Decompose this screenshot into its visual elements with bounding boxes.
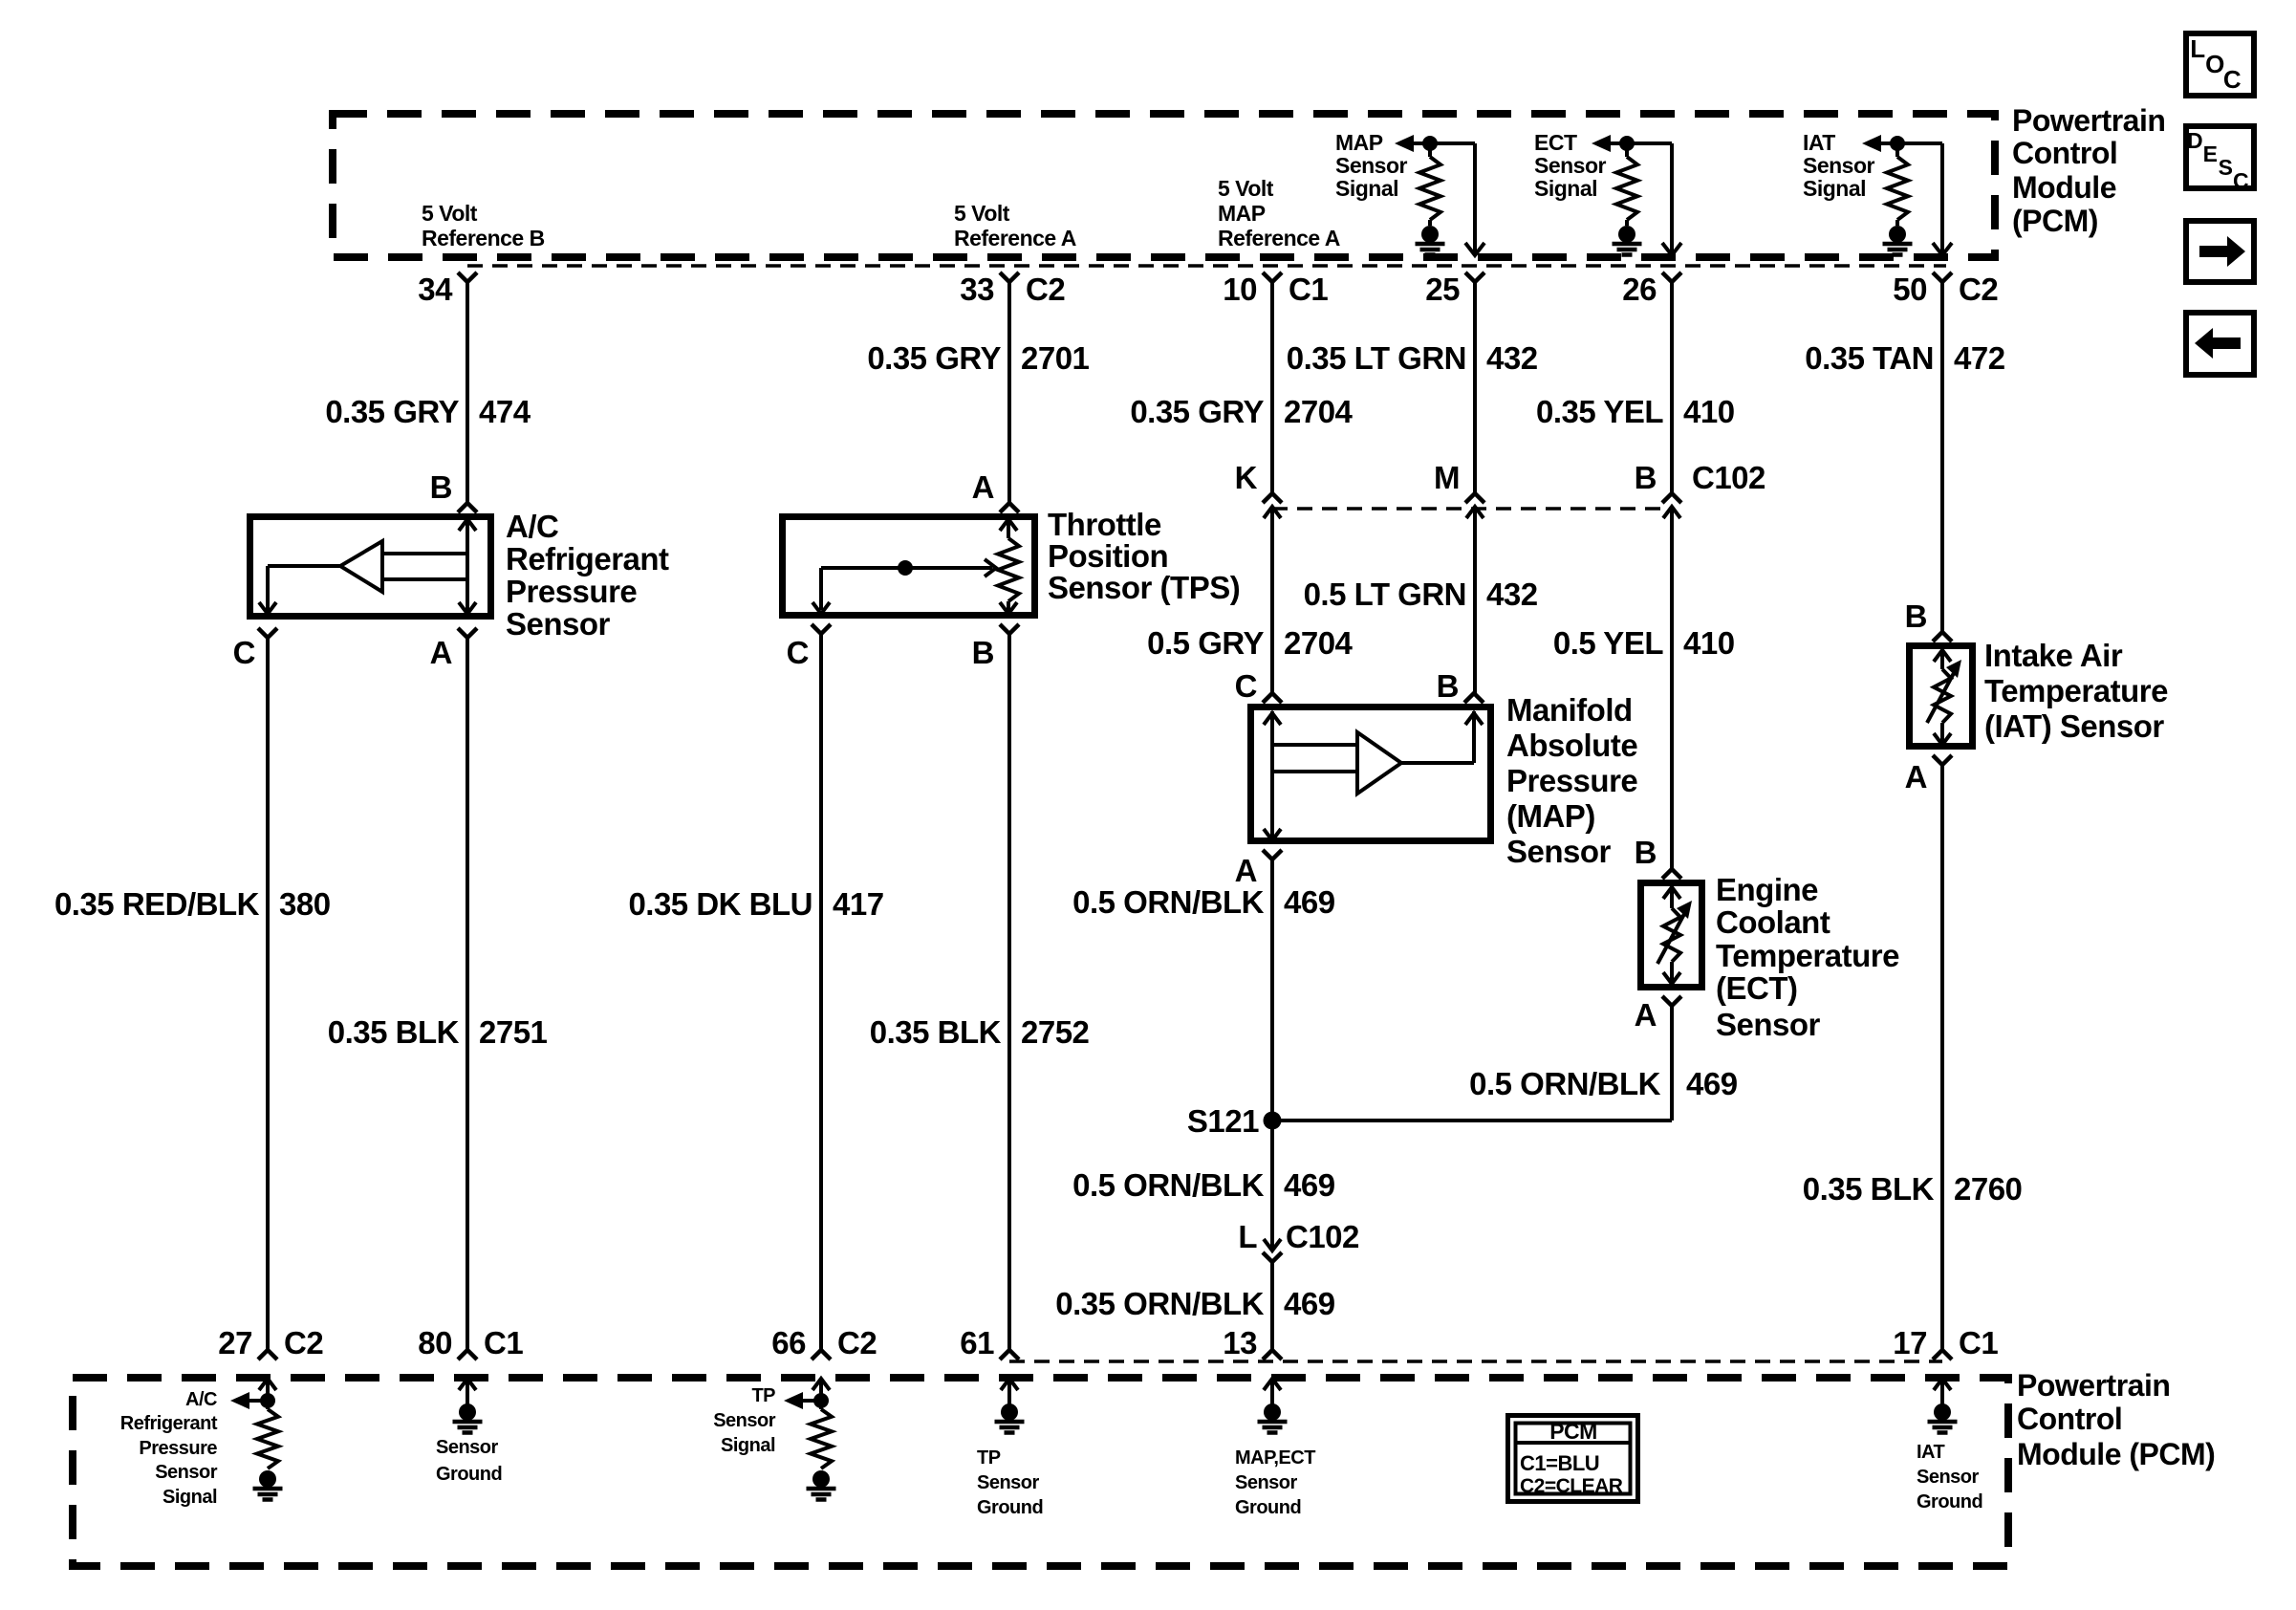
svg-text:33: 33 <box>960 272 994 307</box>
svg-text:Control: Control <box>2017 1402 2122 1436</box>
label A/C Refrigerant Pressure Sensor <box>506 509 669 642</box>
icon box DESC <box>2186 126 2254 193</box>
svg-text:Reference A: Reference A <box>1218 226 1340 250</box>
op-amp A/C sensor (amplifier triangle) <box>340 541 382 592</box>
wire 2704 (0.35 GRY) pin 10 to C102 K <box>1270 283 1274 493</box>
wire 2701 (0.35 GRY) pin 33 to TPS A <box>1007 283 1011 503</box>
svg-text:TP: TP <box>977 1447 1001 1469</box>
svg-text:0.35 BLK: 0.35 BLK <box>328 1014 460 1050</box>
svg-text:S: S <box>2219 155 2233 180</box>
svg-text:410: 410 <box>1683 394 1735 429</box>
label 0.35 BLK 2751 <box>328 1014 548 1050</box>
svg-text:M: M <box>1434 460 1460 495</box>
manifold absolute pressure sensor box <box>1251 707 1491 841</box>
wire 2704 (0.5 GRY) C102 K to MAP C <box>1270 507 1274 693</box>
svg-text:C: C <box>2223 65 2242 94</box>
label 0.35 GRY 2704 <box>1130 394 1353 429</box>
intake air temperature sensor box <box>1910 646 1973 747</box>
wire 474 (0.35 GRY) pin 34 to A/C sensor B <box>466 283 469 503</box>
pin M C102 <box>1434 460 1484 518</box>
pin 66 C2 (PCM bottom) <box>771 1325 877 1360</box>
label IAT Sensor Ground <box>1917 1442 1982 1512</box>
svg-text:0.5 ORN/BLK: 0.5 ORN/BLK <box>1469 1066 1661 1101</box>
svg-text:469: 469 <box>1686 1066 1738 1101</box>
TP sensor signal input (inside PCM) <box>784 1379 830 1409</box>
svg-text:Pressure: Pressure <box>139 1438 217 1459</box>
svg-text:5 Volt: 5 Volt <box>1218 176 1274 201</box>
ground IAT sensor ground pin 17 (inside PCM) <box>1928 1379 1958 1433</box>
label 0.35 DK BLU 417 <box>628 886 883 922</box>
svg-text:ECT: ECT <box>1534 130 1577 155</box>
svg-text:Engine: Engine <box>1716 872 1818 907</box>
svg-text:10: 10 <box>1223 272 1257 307</box>
icon box arrow right <box>2186 221 2254 282</box>
svg-text:A: A <box>1635 997 1657 1033</box>
thermistor ECT sensor <box>1657 885 1692 984</box>
wire 2760 (0.35 BLK) IAT A to pin 17 <box>1940 765 1944 1350</box>
svg-text:0.5 ORN/BLK: 0.5 ORN/BLK <box>1072 884 1265 920</box>
label Manifold Absolute Pressure (MAP) Sensor <box>1506 692 1637 869</box>
svg-text:(MAP): (MAP) <box>1506 798 1595 834</box>
svg-text:5 Volt: 5 Volt <box>422 201 478 226</box>
svg-text:13: 13 <box>1223 1325 1257 1360</box>
pin 34 (PCM top) <box>418 272 477 307</box>
wire MAP internal signal out <box>1401 711 1483 763</box>
icon box arrow left <box>2186 313 2254 375</box>
svg-text:IAT: IAT <box>1917 1442 1945 1463</box>
pull-up resistor MAP sensor signal (inside PCM) <box>1419 136 1440 226</box>
svg-text:0.5 LT GRN: 0.5 LT GRN <box>1304 577 1466 612</box>
svg-text:432: 432 <box>1486 340 1538 376</box>
PCM bottom dashed box (Powertrain Control Module) <box>73 1378 2008 1566</box>
wire 469 (0.35 ORN/BLK) C102 L to pin 13 <box>1270 1262 1274 1350</box>
svg-text:IAT: IAT <box>1803 130 1835 155</box>
svg-text:Reference A: Reference A <box>954 226 1076 250</box>
resistor A/C signal (inside PCM) <box>257 1409 278 1469</box>
svg-text:0.35 ORN/BLK: 0.35 ORN/BLK <box>1055 1286 1264 1321</box>
wire 432 (0.5 LT GRN) C102 M to MAP B <box>1473 507 1477 693</box>
pin 26 (PCM top) <box>1622 272 1681 307</box>
svg-text:B: B <box>430 469 452 505</box>
pin B IAT sensor <box>1905 598 1952 642</box>
ground MAP,ECT sensor ground pin 13 (inside PCM) <box>1258 1379 1288 1433</box>
svg-text:C1=BLU: C1=BLU <box>1520 1451 1599 1475</box>
ground symbol IAT resistor (inside PCM) <box>1883 226 1913 255</box>
pull-up resistor IAT sensor signal (inside PCM) <box>1887 136 1908 226</box>
svg-text:C1: C1 <box>1289 272 1328 307</box>
wire 469 (0.5 ORN/BLK) MAP A to S121 <box>1270 859 1274 1120</box>
svg-text:Coolant: Coolant <box>1716 904 1830 940</box>
svg-text:(IAT) Sensor: (IAT) Sensor <box>1984 708 2164 744</box>
label 0.5 LT GRN 432 <box>1304 577 1538 612</box>
svg-text:0.35 GRY: 0.35 GRY <box>325 394 459 429</box>
svg-text:26: 26 <box>1622 272 1657 307</box>
pin L C102 <box>1238 1219 1359 1262</box>
label 0.35 TAN 472 <box>1805 340 2004 376</box>
svg-text:L: L <box>1238 1219 1257 1254</box>
svg-text:(ECT): (ECT) <box>1716 970 1797 1006</box>
pin 33 C2 (PCM top) <box>960 272 1065 307</box>
svg-text:A: A <box>972 469 994 505</box>
svg-text:A/C: A/C <box>185 1389 217 1410</box>
svg-text:Sensor (TPS): Sensor (TPS) <box>1048 570 1240 605</box>
svg-text:B: B <box>1635 460 1657 495</box>
wire 410 (0.5 YEL) C102 B to ECT B <box>1670 507 1674 869</box>
svg-text:2704: 2704 <box>1284 625 1354 661</box>
label 0.35 RED/BLK 380 <box>54 886 331 922</box>
A/C refrigerant pressure sensor signal input (inside PCM) <box>230 1379 276 1409</box>
wire MAP internal supply <box>1264 711 1357 840</box>
ground symbol MAP resistor (inside PCM) <box>1416 226 1445 255</box>
svg-text:A: A <box>1235 853 1257 888</box>
op-amp MAP sensor (amplifier triangle) <box>1357 732 1401 794</box>
svg-text:C2: C2 <box>284 1325 323 1360</box>
svg-text:MAP: MAP <box>1218 201 1266 226</box>
pin C TPS <box>787 624 831 670</box>
svg-text:5 Volt: 5 Volt <box>954 201 1010 226</box>
svg-text:Temperature: Temperature <box>1984 673 2168 708</box>
label 0.5 ORN/BLK 469 (ECT) <box>1469 1066 1738 1101</box>
label Intake Air Temperature (IAT) Sensor <box>1984 638 2168 744</box>
wire 380 (0.35 RED/BLK) A/C C to pin 27 <box>266 638 270 1350</box>
svg-text:0.35 BLK: 0.35 BLK <box>1803 1171 1935 1207</box>
svg-text:469: 469 <box>1284 1167 1335 1203</box>
svg-text:C: C <box>233 635 255 670</box>
svg-text:C102: C102 <box>1692 460 1765 495</box>
pin C MAP sensor <box>1235 668 1282 704</box>
label TP Sensor Signal <box>713 1385 776 1456</box>
wire MAP signal drop to pin <box>1465 143 1484 255</box>
svg-text:0.35 DK BLU: 0.35 DK BLU <box>628 886 812 922</box>
pin C A/C sensor <box>233 628 277 670</box>
label 0.5 YEL 410 <box>1553 625 1735 661</box>
label MAP,ECT Sensor Ground <box>1235 1447 1315 1518</box>
wire ECT signal drop to pin <box>1662 143 1681 255</box>
svg-text:L: L <box>2190 34 2205 63</box>
svg-text:Ground: Ground <box>436 1464 502 1485</box>
svg-text:380: 380 <box>279 886 331 922</box>
IAT sensor signal label (inside PCM) <box>1803 130 1875 201</box>
connector C1/C2 dashed line (bottom) <box>1009 1360 1942 1363</box>
legend box PCM connector colors <box>1508 1416 1638 1502</box>
ground symbol ECT resistor (inside PCM) <box>1613 226 1642 255</box>
svg-text:B: B <box>972 635 994 670</box>
svg-text:D: D <box>2187 128 2202 153</box>
label 0.35 YEL 410 <box>1536 394 1735 429</box>
svg-text:Sensor: Sensor <box>977 1472 1040 1493</box>
label 0.5 ORN/BLK 469 (MAP) <box>1072 884 1335 920</box>
svg-text:Sensor: Sensor <box>436 1437 499 1458</box>
svg-text:50: 50 <box>1893 272 1927 307</box>
svg-text:2704: 2704 <box>1284 394 1354 429</box>
label TP Sensor Ground <box>977 1447 1043 1518</box>
svg-text:66: 66 <box>771 1325 806 1360</box>
throttle position sensor box <box>783 517 1035 616</box>
svg-text:Throttle: Throttle <box>1048 507 1161 542</box>
svg-text:O: O <box>2205 50 2224 78</box>
svg-text:B: B <box>1905 598 1927 634</box>
icon box LOC <box>2186 33 2254 96</box>
label 0.35 BLK 2752 <box>870 1014 1090 1050</box>
wire TPS wiper arm <box>812 559 996 614</box>
label 0.5 GRY 2704 <box>1147 625 1353 661</box>
svg-text:0.35 LT GRN: 0.35 LT GRN <box>1287 340 1466 376</box>
svg-text:417: 417 <box>833 886 884 922</box>
svg-text:0.5 YEL: 0.5 YEL <box>1553 625 1663 661</box>
svg-text:25: 25 <box>1425 272 1460 307</box>
svg-text:A: A <box>1905 759 1927 794</box>
svg-text:C: C <box>1235 668 1257 704</box>
svg-text:C2=CLEAR: C2=CLEAR <box>1520 1475 1623 1497</box>
svg-text:Sensor: Sensor <box>713 1410 776 1431</box>
label Sensor Ground <box>436 1437 502 1485</box>
svg-text:Refrigerant: Refrigerant <box>120 1413 218 1434</box>
svg-text:Sensor: Sensor <box>1506 834 1612 869</box>
wire 432 (0.35 LT GRN) pin 25 to C102 M <box>1473 283 1477 493</box>
node S121 splice <box>1187 1103 1282 1139</box>
label 0.35 GRY 474 <box>325 394 531 429</box>
svg-text:2701: 2701 <box>1021 340 1090 376</box>
wire 2752 (0.35 BLK) TPS B to pin 61 <box>1007 634 1011 1350</box>
svg-text:0.35 GRY: 0.35 GRY <box>1130 394 1264 429</box>
svg-text:Position: Position <box>1048 538 1168 574</box>
label 0.35 GRY 2701 <box>867 340 1089 376</box>
svg-text:Powertrain: Powertrain <box>2012 103 2165 138</box>
svg-text:A/C: A/C <box>506 509 558 544</box>
label Throttle Position Sensor (TPS) <box>1048 507 1240 605</box>
svg-text:MAP,ECT: MAP,ECT <box>1235 1447 1315 1469</box>
svg-text:472: 472 <box>1954 340 2005 376</box>
MAP sensor signal label (inside PCM) <box>1335 130 1408 201</box>
svg-text:Sensor: Sensor <box>1235 1472 1298 1493</box>
svg-text:469: 469 <box>1284 1286 1335 1321</box>
svg-text:K: K <box>1235 460 1258 495</box>
svg-text:Sensor: Sensor <box>1917 1467 1980 1488</box>
svg-text:432: 432 <box>1486 577 1538 612</box>
pin B MAP sensor <box>1437 668 1484 704</box>
svg-text:Sensor: Sensor <box>1716 1007 1821 1042</box>
pin A A/C sensor <box>430 628 477 670</box>
pin 61 (PCM bottom) <box>960 1325 1019 1360</box>
label 0.5 ORN/BLK 469 (S121) <box>1072 1167 1335 1203</box>
svg-text:0.35 BLK: 0.35 BLK <box>870 1014 1002 1050</box>
pin A TPS <box>972 469 1019 512</box>
svg-text:Sensor: Sensor <box>1534 153 1607 178</box>
svg-text:0.35 RED/BLK: 0.35 RED/BLK <box>54 886 260 922</box>
svg-text:2760: 2760 <box>1954 1171 2022 1207</box>
svg-text:C: C <box>2233 168 2248 193</box>
wire 472 (0.35 TAN) pin 50 to IAT B <box>1940 283 1944 632</box>
pin 80 C1 (PCM bottom) <box>418 1325 523 1360</box>
ECT sensor signal arrow (inside PCM) <box>1592 135 1672 152</box>
svg-text:C1: C1 <box>1959 1325 1998 1360</box>
svg-text:C2: C2 <box>837 1325 877 1360</box>
pin A ECT sensor <box>1635 996 1681 1033</box>
svg-text:Powertrain: Powertrain <box>2017 1368 2170 1403</box>
svg-text:Refrigerant: Refrigerant <box>506 541 669 577</box>
svg-text:2752: 2752 <box>1021 1014 1090 1050</box>
svg-text:0.5 GRY: 0.5 GRY <box>1147 625 1264 661</box>
pin 25 (PCM top) <box>1425 272 1484 307</box>
PCM top dashed box (Powertrain Control Module) <box>333 114 1995 257</box>
svg-text:2751: 2751 <box>479 1014 548 1050</box>
svg-text:34: 34 <box>418 272 453 307</box>
svg-text:469: 469 <box>1284 884 1335 920</box>
ground TP sensor ground pin 61 (inside PCM) <box>995 1379 1025 1433</box>
svg-text:0.35 YEL: 0.35 YEL <box>1536 394 1663 429</box>
svg-text:0.35 GRY: 0.35 GRY <box>867 340 1001 376</box>
engine coolant temperature sensor box <box>1641 883 1702 988</box>
svg-text:Ground: Ground <box>977 1497 1043 1518</box>
svg-text:Signal: Signal <box>1335 176 1398 201</box>
svg-text:Signal: Signal <box>721 1435 775 1456</box>
pin B C102 <box>1635 460 1765 518</box>
svg-text:27: 27 <box>218 1325 252 1360</box>
label Engine Coolant Temperature (ECT) Sensor <box>1716 872 1899 1042</box>
pin B ECT sensor <box>1635 835 1681 879</box>
svg-text:Control: Control <box>2012 136 2117 170</box>
svg-text:Signal: Signal <box>1803 176 1866 201</box>
A/C refrigerant pressure sensor box <box>250 517 491 617</box>
connector C102 dashed line <box>1272 507 1672 511</box>
svg-text:Sensor: Sensor <box>506 606 611 642</box>
pin 17 C1 (PCM bottom) <box>1893 1325 1998 1360</box>
ECT sensor signal label (inside PCM) <box>1534 130 1607 201</box>
resistor TP signal (inside PCM) <box>811 1409 832 1469</box>
svg-text:Reference B: Reference B <box>422 226 545 250</box>
MAP sensor signal arrow (inside PCM) <box>1395 135 1475 152</box>
pin 13 (PCM bottom) <box>1223 1325 1282 1360</box>
svg-text:Sensor: Sensor <box>1803 153 1875 178</box>
IAT sensor signal arrow (inside PCM) <box>1862 135 1942 152</box>
svg-text:S121: S121 <box>1187 1103 1259 1139</box>
wire 2751 (0.35 BLK) A/C A to pin 80 <box>466 638 469 1350</box>
svg-text:C2: C2 <box>1959 272 1998 307</box>
label 0.35 ORN/BLK 469 <box>1055 1286 1334 1321</box>
svg-text:B: B <box>1635 835 1657 870</box>
svg-text:PCM: PCM <box>1549 1419 1597 1444</box>
resistor TPS potentiometer <box>998 517 1019 614</box>
label 5 Volt MAP Reference A <box>1218 176 1340 250</box>
pin K C102 <box>1235 460 1282 518</box>
pin B TPS <box>972 624 1019 670</box>
svg-text:80: 80 <box>418 1325 452 1360</box>
wire A/C internal supply <box>382 517 476 614</box>
svg-text:(PCM): (PCM) <box>2012 204 2098 238</box>
svg-text:Absolute: Absolute <box>1506 728 1637 763</box>
connector C1/C2 dashed line (top) <box>467 264 1946 268</box>
svg-text:17: 17 <box>1893 1325 1927 1360</box>
pin 10 C1 (PCM top) <box>1223 272 1328 307</box>
ground symbol TP signal resistor <box>807 1470 836 1500</box>
thermistor IAT sensor <box>1927 648 1961 745</box>
wire 417 (0.35 DK BLU) TPS C to pin 66 <box>819 634 823 1350</box>
svg-text:C: C <box>787 635 809 670</box>
ground sensor ground pin 80 (inside PCM) <box>453 1379 483 1433</box>
svg-text:B: B <box>1437 668 1459 704</box>
label Powertrain Control Module (PCM) bottom right <box>2017 1368 2215 1471</box>
svg-text:Sensor: Sensor <box>1335 153 1408 178</box>
label 5 Volt Reference A <box>954 201 1076 250</box>
svg-text:Ground: Ground <box>1917 1491 1982 1512</box>
svg-text:474: 474 <box>479 394 531 429</box>
wire IAT signal drop to pin <box>1933 143 1952 255</box>
svg-text:C1: C1 <box>484 1325 523 1360</box>
svg-text:Manifold: Manifold <box>1506 692 1633 728</box>
ground symbol A/C signal resistor <box>253 1470 283 1500</box>
pin A IAT sensor <box>1905 755 1952 794</box>
label Powertrain Control Module (PCM) top right <box>2012 103 2165 238</box>
svg-text:Pressure: Pressure <box>1506 763 1637 798</box>
svg-text:Module: Module <box>2012 170 2116 205</box>
svg-text:Sensor: Sensor <box>155 1462 218 1483</box>
svg-text:E: E <box>2203 141 2218 166</box>
label 0.35 LT GRN 432 <box>1287 340 1538 376</box>
svg-text:MAP: MAP <box>1335 130 1383 155</box>
pin 50 C2 (PCM top) <box>1893 272 1998 307</box>
label 5 Volt Reference B <box>422 201 545 250</box>
svg-text:Temperature: Temperature <box>1716 938 1899 973</box>
svg-text:C102: C102 <box>1286 1219 1359 1254</box>
svg-text:Ground: Ground <box>1235 1497 1301 1518</box>
svg-text:Intake Air: Intake Air <box>1984 638 2123 673</box>
svg-text:Signal: Signal <box>162 1487 217 1508</box>
wire 469 (0.5 ORN/BLK) S121 to C102 L <box>1270 1120 1274 1251</box>
svg-text:Signal: Signal <box>1534 176 1597 201</box>
svg-text:61: 61 <box>960 1325 994 1360</box>
svg-text:A: A <box>430 635 452 670</box>
svg-text:C2: C2 <box>1026 272 1065 307</box>
pin B A/C sensor <box>430 469 477 512</box>
svg-text:410: 410 <box>1683 625 1735 661</box>
pin 27 C2 (PCM bottom) <box>218 1325 323 1360</box>
svg-text:0.35 TAN: 0.35 TAN <box>1805 340 1934 376</box>
wire A/C internal signal out <box>259 566 340 614</box>
label A/C Refrigerant Pressure Sensor Signal <box>120 1389 218 1508</box>
svg-text:Pressure: Pressure <box>506 574 637 609</box>
svg-text:TP: TP <box>751 1385 775 1406</box>
pull-up resistor ECT sensor signal (inside PCM) <box>1616 136 1637 226</box>
wire 469 (0.5 ORN/BLK) ECT A to S121 <box>1272 1006 1672 1120</box>
svg-text:Module (PCM): Module (PCM) <box>2017 1437 2215 1471</box>
label 0.35 BLK 2760 <box>1803 1171 2023 1207</box>
pin A MAP sensor <box>1235 850 1282 888</box>
wire 410 (0.35 YEL) pin 26 to C102 B <box>1670 283 1674 493</box>
svg-text:0.5 ORN/BLK: 0.5 ORN/BLK <box>1072 1167 1265 1203</box>
